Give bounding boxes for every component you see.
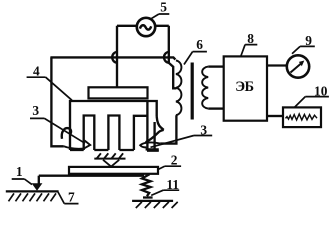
svg-text:4: 4 <box>33 64 40 79</box>
svg-text:11: 11 <box>166 177 179 192</box>
wire: source right down to transformer tap <box>155 26 176 89</box>
svg-text:3: 3 <box>200 122 207 137</box>
electronic block U1 (label 8, ЭБ) <box>224 56 267 120</box>
inductor comb (concentrator) <box>70 101 159 150</box>
svg-text:3: 3 <box>32 103 39 118</box>
force arrow (label 1) <box>32 176 43 191</box>
coupling loop right (label 3) <box>140 117 164 151</box>
svg-text:9: 9 <box>305 33 312 48</box>
label 6 leader <box>184 37 207 65</box>
label 2 leader <box>157 153 181 170</box>
svg-text:ЭБ: ЭБ <box>235 79 253 95</box>
label 9 leader <box>292 33 315 54</box>
coupling loop left (label 3) <box>62 128 90 149</box>
wire: primary bottom down to right loop <box>160 115 176 143</box>
svg-text:8: 8 <box>247 31 254 46</box>
label 4 leader <box>27 64 72 101</box>
label 3 left leader <box>30 103 85 144</box>
spring base ground <box>132 201 178 208</box>
label 7 leader <box>58 190 79 205</box>
wire: secondary to block top <box>208 65 224 67</box>
wire: block to meter <box>267 64 287 66</box>
pivot support above plate <box>94 153 125 166</box>
label 10 leader <box>295 84 329 107</box>
svg-text:10: 10 <box>314 84 328 99</box>
meter P1 (label 9) <box>287 55 309 77</box>
label 8 leader <box>241 31 257 56</box>
wire: horizontal bus <box>50 57 175 59</box>
label 5 leader <box>150 0 169 19</box>
label 3 right leader <box>151 122 213 147</box>
AC source G1 (label 5) <box>137 18 155 36</box>
label 11 leader <box>151 177 179 196</box>
heater R1 (label 10) <box>283 107 321 127</box>
workpiece plate (label 2) <box>69 167 158 174</box>
transformer core <box>191 63 194 120</box>
wire: source left to induction plate <box>112 26 137 88</box>
wire: left bus drop to left loop <box>51 57 63 146</box>
transformer T1 primary winding (label 6) <box>176 60 182 115</box>
svg-text:7: 7 <box>68 190 75 205</box>
transformer secondary winding <box>202 67 208 109</box>
wire: secondary to block bottom <box>208 107 224 109</box>
svg-text:2: 2 <box>171 153 178 168</box>
svg-text:1: 1 <box>16 164 23 179</box>
spring (label 11) <box>142 174 153 197</box>
svg-text:5: 5 <box>160 0 167 14</box>
label 1 leader <box>12 164 32 185</box>
wire: block to heater <box>267 115 283 117</box>
base ground (label 7) <box>6 191 59 201</box>
beam under plate <box>39 175 144 177</box>
induction feed plate (label 4 upper plate) <box>89 87 148 98</box>
svg-text:6: 6 <box>196 37 203 52</box>
